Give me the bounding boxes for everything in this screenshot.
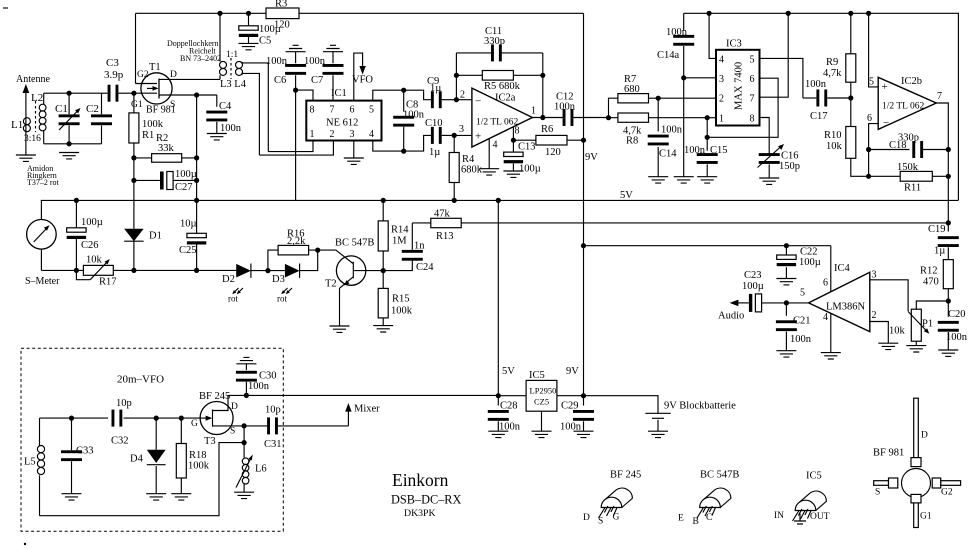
capacitor C13 100u (electrolytic): [504, 140, 541, 174]
svg-text:33k: 33k: [158, 143, 175, 154]
svg-text:R11: R11: [904, 183, 921, 194]
node C26 bottom: [74, 268, 79, 273]
svg-text:R14: R14: [391, 225, 409, 236]
node C18 left: [866, 147, 871, 152]
svg-text:BF 245: BF 245: [199, 391, 230, 402]
svg-text:BN 73–2402: BN 73–2402: [180, 54, 221, 63]
svg-text:100n: 100n: [790, 334, 812, 345]
node C17/R9/R10: [848, 95, 853, 100]
5V top rail: [684, 13, 959, 200]
capacitor C25 10u (electrolytic): [179, 200, 206, 270]
svg-text:LP2950: LP2950: [530, 386, 557, 396]
svg-text:100n: 100n: [805, 79, 827, 90]
svg-text:T2: T2: [325, 279, 337, 290]
svg-text:Antenne: Antenne: [16, 74, 50, 85]
ground C15: [697, 177, 717, 183]
svg-text:100k: 100k: [391, 306, 413, 317]
svg-text:C15: C15: [710, 145, 728, 156]
svg-text:C14: C14: [659, 149, 677, 160]
svg-text:6: 6: [750, 74, 755, 85]
svg-text:6: 6: [867, 113, 872, 124]
wire VFO return (L5 bottom loop): [40, 443, 245, 516]
svg-text:BF 245: BF 245: [610, 470, 641, 481]
node R11 left: [866, 174, 871, 179]
ground C28: [488, 431, 508, 437]
svg-text:1: 1: [719, 114, 724, 125]
svg-text:C20: C20: [948, 309, 966, 320]
resistor R10 10k: [824, 98, 869, 176]
ground C14a: [674, 177, 694, 183]
svg-text:330p: 330p: [898, 133, 919, 144]
wire feedback right riser: [542, 53, 544, 118]
svg-text:R5 680k: R5 680k: [484, 81, 521, 92]
svg-text:C6: C6: [274, 75, 286, 86]
svg-text:LM386N: LM386N: [826, 302, 866, 313]
svg-text:7: 7: [330, 105, 335, 116]
node R5 left: [454, 73, 459, 78]
node 5V riser on rail: [496, 198, 501, 203]
svg-text:9V: 9V: [566, 366, 579, 377]
node 9V/supply line: [581, 243, 586, 248]
node R8/pin1: [705, 115, 710, 120]
wire C6 node down to 5V rail: [295, 90, 297, 200]
wire G2 to 9V rail: [135, 13, 137, 83]
capacitor C28 100n: [488, 396, 521, 433]
svg-text:10p: 10p: [265, 405, 281, 416]
svg-text:5: 5: [800, 288, 805, 299]
svg-text:S: S: [230, 427, 235, 437]
node C6 / pin8: [293, 88, 298, 93]
svg-text:680: 680: [624, 84, 640, 95]
svg-text:3: 3: [459, 124, 464, 135]
capacitor C32 10p: [111, 398, 132, 447]
svg-text:Mixer: Mixer: [354, 404, 380, 415]
svg-text:P1: P1: [922, 319, 933, 330]
wire IC5 to 9V node: [557, 396, 658, 414]
svg-text:IC1: IC1: [331, 88, 347, 99]
svg-text:BF 981: BF 981: [873, 448, 904, 459]
capacitor C18 330p: [869, 133, 949, 159]
inductor L5: [24, 418, 45, 516]
op-amp IC2b 1/2 TL062: [867, 76, 942, 129]
svg-text:100n: 100n: [946, 332, 968, 343]
svg-text:100µ: 100µ: [742, 281, 764, 292]
S-Meter: [25, 200, 60, 287]
svg-text:Einkorn: Einkorn: [392, 470, 449, 490]
wire pin8 IC3 to C16: [760, 118, 770, 154]
capacitor C11 330p: [456, 26, 542, 61]
svg-text:L2: L2: [31, 92, 43, 104]
svg-text:2: 2: [872, 310, 877, 321]
wire pin3: [454, 134, 472, 136]
resistor R17 10k (variable): [76, 255, 116, 288]
svg-text:OUT: OUT: [810, 512, 830, 522]
wire drain node: [228, 394, 246, 396]
node C14a/pin3: [681, 75, 686, 80]
ground C20: [938, 350, 958, 356]
node C33: [69, 416, 74, 421]
svg-text:100n: 100n: [304, 56, 326, 67]
ground IC2a pin4: [479, 169, 499, 175]
svg-text:R18: R18: [189, 450, 207, 461]
svg-text:D: D: [170, 70, 177, 80]
ground IC4 pin2: [878, 343, 898, 349]
svg-text:C14a: C14a: [657, 50, 680, 61]
node C25 bottom: [194, 268, 199, 273]
svg-text:IC2a: IC2a: [495, 93, 516, 104]
svg-text:G: G: [613, 513, 620, 523]
node output/feedback: [540, 115, 545, 120]
wire feedback left riser: [455, 53, 457, 100]
svg-text:100n: 100n: [248, 381, 270, 392]
node R14 rail: [381, 198, 386, 203]
resistor R1 100k: [129, 93, 164, 158]
node C8 bottom: [401, 149, 406, 154]
svg-text:C: C: [706, 513, 712, 523]
svg-text:D1: D1: [149, 231, 162, 242]
svg-text:100k: 100k: [142, 119, 164, 130]
capacitor C3 3.9p: [104, 57, 134, 102]
capacitor C22 100u (electrolytic): [777, 246, 821, 279]
svg-text:3.9p: 3.9p: [104, 69, 124, 81]
ground L6: [234, 492, 254, 498]
svg-text:1: 1: [310, 129, 315, 140]
ground C30 (inverted): [236, 357, 256, 363]
svg-text:NE 612: NE 612: [326, 118, 358, 129]
wire 5V line to IC5: [498, 395, 526, 397]
text Amidon Ringkern T37-2 rot: [27, 164, 60, 187]
svg-text:R6: R6: [541, 124, 553, 135]
svg-text:−: −: [475, 96, 481, 108]
varicap diode D4: [130, 418, 166, 494]
svg-text:5: 5: [369, 105, 374, 116]
ground T2 emitter: [330, 326, 350, 332]
svg-text:2: 2: [330, 129, 335, 140]
audio amp IC4 LM386N: [800, 263, 877, 332]
ground C5: [239, 43, 259, 49]
resistor R11 150k: [869, 162, 949, 194]
capacitor C7 100n: [304, 52, 344, 101]
svg-text:D: D: [921, 431, 928, 441]
svg-text:1:1: 1:1: [226, 50, 238, 60]
node R5 right: [540, 73, 545, 78]
ground C6 (inverted): [286, 45, 306, 51]
svg-text:C13: C13: [518, 142, 536, 153]
capacitor C2: [86, 93, 112, 144]
node C27 left: [131, 178, 136, 183]
capacitor C15 100n: [684, 118, 728, 177]
ground C33: [62, 494, 82, 500]
resistor R13 47k: [412, 209, 461, 243]
svg-text:10p: 10p: [116, 398, 132, 409]
node R9 top on rail: [848, 11, 853, 16]
svg-text:C22: C22: [800, 247, 818, 258]
capacitor C23 100u (electrolytic horizontal): [742, 270, 786, 312]
wire R13 to IC2b output (AGC line): [461, 222, 948, 224]
inductor L1: [11, 118, 41, 144]
node output/C18: [946, 147, 951, 152]
capacitor C6 100n: [266, 52, 306, 90]
transformer core (dashed): [35, 101, 37, 132]
svg-text:100n: 100n: [661, 125, 683, 136]
svg-text:1: 1: [531, 106, 536, 117]
node R6 / 9V line: [581, 138, 586, 143]
ground IC5: [532, 431, 552, 437]
pictogram BF245 package: [583, 470, 641, 527]
svg-text:100n: 100n: [554, 102, 576, 113]
svg-text:3: 3: [350, 129, 355, 140]
svg-text:C2: C2: [86, 103, 99, 115]
svg-text:100n: 100n: [666, 27, 688, 38]
capacitor C20 100n: [938, 301, 968, 350]
battery 9V Blockbatterie: [645, 401, 736, 432]
svg-text:3: 3: [872, 270, 877, 281]
wire pin4 IC3 from rail: [709, 13, 716, 58]
svg-text:C5: C5: [259, 36, 271, 47]
svg-text:CZ5: CZ5: [534, 397, 549, 407]
svg-text:T3: T3: [204, 436, 216, 447]
node R16 right: [315, 248, 320, 253]
capacitor C16 150p (variable): [758, 144, 801, 178]
wire tank top: [44, 92, 102, 94]
svg-text:100µ: 100µ: [259, 24, 281, 35]
svg-text:D4: D4: [130, 454, 144, 465]
svg-text:G2: G2: [941, 488, 953, 498]
ground C13: [503, 171, 523, 177]
svg-text:8: 8: [310, 105, 315, 116]
wire pin5 IC3 to C17 line: [760, 58, 803, 98]
svg-text:C28: C28: [500, 401, 518, 412]
svg-text:BC 547B: BC 547B: [335, 238, 374, 249]
svg-text:R12: R12: [920, 266, 938, 277]
ground R15: [373, 326, 393, 332]
9V rail top: [136, 12, 584, 14]
svg-text:8: 8: [515, 126, 520, 137]
wire pin5 to C8 top: [373, 90, 432, 100]
wire pin1: [707, 117, 716, 119]
svg-text:C19: C19: [928, 224, 946, 235]
transformer T L3/L4 BN73-2402: [167, 39, 247, 90]
node T2 collector: [381, 268, 386, 273]
wire D1 to detector line: [133, 241, 135, 270]
capacitor C31 10p: [244, 405, 348, 451]
wire IC2b pin5 bias from rail: [869, 13, 879, 87]
svg-text:7: 7: [750, 94, 755, 105]
svg-text:4: 4: [823, 312, 828, 323]
capacitor C27 100u (electrolytic): [134, 169, 197, 193]
resistor R15 100k: [378, 271, 413, 326]
svg-text:C24: C24: [416, 262, 434, 273]
wire C2 node to C3: [102, 92, 108, 94]
svg-text:100k: 100k: [188, 461, 210, 472]
svg-text:IC2b: IC2b: [901, 76, 922, 87]
svg-text:330p: 330p: [484, 36, 505, 47]
svg-text:4: 4: [719, 55, 724, 66]
svg-text:G2: G2: [137, 70, 149, 80]
node pin7 on rail: [786, 11, 791, 16]
node C1 top: [67, 91, 72, 96]
inductor L4: [236, 61, 269, 155]
node output/R11: [946, 174, 951, 179]
ground R18: [171, 494, 191, 500]
node pin8/R6/C13: [511, 138, 516, 143]
svg-text:6: 6: [350, 105, 355, 116]
wire IC2a pin8: [512, 127, 514, 140]
svg-text:C1: C1: [55, 103, 68, 115]
wire tank bottom: [44, 143, 102, 145]
wire pin1: [268, 141, 313, 152]
wire IC2b output: [936, 103, 948, 223]
ground D4: [146, 494, 166, 500]
svg-text:1µ: 1µ: [429, 147, 440, 158]
resistor R9 4,7k: [823, 13, 856, 98]
svg-text:R13: R13: [436, 231, 454, 242]
node R2 left: [131, 155, 136, 160]
svg-text:5: 5: [869, 77, 874, 88]
svg-text:2,2k: 2,2k: [287, 236, 306, 247]
svg-text:S: S: [875, 488, 880, 498]
ground C21: [776, 351, 796, 357]
node G1/C3/R1: [131, 91, 136, 96]
node 5V/C28: [496, 393, 501, 398]
svg-text:2: 2: [719, 94, 724, 105]
svg-text:DSB–DC–RX: DSB–DC–RX: [391, 493, 462, 507]
svg-text:3:16: 3:16: [24, 134, 41, 144]
5V feed line to VFO: [246, 394, 498, 396]
wire pin7 IC3 to 5V rail: [760, 13, 789, 97]
svg-text:D: D: [231, 402, 238, 412]
svg-text:3: 3: [719, 74, 724, 85]
VFO gate line: [40, 417, 201, 419]
svg-text:C30: C30: [259, 371, 277, 382]
voltage regulator IC5 LP2950: [526, 370, 557, 431]
svg-text:5: 5: [750, 55, 755, 66]
svg-text:150p: 150p: [779, 161, 800, 172]
capacitor C1 (variable): [55, 93, 81, 144]
svg-text:S–Meter: S–Meter: [25, 276, 60, 287]
node R12/C20/P1: [946, 298, 951, 303]
resistor R2 33k: [134, 133, 197, 162]
capacitor C33: [61, 418, 94, 494]
svg-text:120: 120: [545, 147, 561, 158]
svg-text:B: B: [693, 517, 699, 527]
antenna input: [16, 74, 50, 155]
audio output arrow: [718, 300, 749, 322]
inductor L3: [220, 13, 227, 79]
transistor T1 BF981 dual-gate MOSFET: [131, 62, 220, 116]
svg-text:VFO: VFO: [352, 75, 373, 86]
wire C9 to pin2: [456, 99, 472, 101]
svg-text:47k: 47k: [434, 209, 451, 220]
svg-text:20m–VFO: 20m–VFO: [117, 374, 164, 386]
svg-text:MAX 7400: MAX 7400: [734, 62, 745, 110]
svg-text:100n: 100n: [684, 145, 706, 156]
ground C22: [776, 279, 796, 285]
wire R1 node down to D1: [133, 158, 135, 229]
node L3 top: [217, 11, 222, 16]
node pin4 riser on rail: [707, 11, 712, 16]
svg-text:7: 7: [937, 91, 942, 102]
capacitor C12 100n: [554, 92, 609, 127]
svg-text:IC4: IC4: [834, 263, 851, 274]
potentiometer P1 10k: [889, 301, 948, 346]
svg-text:5V: 5V: [620, 190, 633, 201]
svg-text:9V Blockbatterie: 9V Blockbatterie: [664, 401, 736, 412]
5V riser from regulator: [497, 200, 499, 395]
capacitor C30 100n: [236, 364, 277, 396]
svg-text:100n: 100n: [220, 123, 242, 134]
svg-text:R17: R17: [99, 277, 117, 288]
node IC2a pin2: [454, 97, 459, 102]
node R4 bottom on 5V rail: [452, 198, 457, 203]
wire R16 node to T2 base: [318, 250, 353, 263]
svg-text:470: 470: [923, 277, 939, 288]
svg-text:BF 981: BF 981: [146, 105, 176, 116]
svg-text:C26: C26: [81, 240, 99, 251]
svg-text:R8: R8: [626, 136, 638, 147]
mixer output arrow: [345, 403, 380, 426]
capacitor C10 1u: [425, 118, 454, 158]
wire pin3 to ground: [353, 141, 355, 159]
svg-text:C21: C21: [793, 316, 811, 327]
VFO enclosure (dashed box): [21, 348, 283, 531]
wire IC4 output pin5: [786, 302, 808, 304]
node source/R2: [194, 155, 199, 160]
pictogram BF981 package: [873, 398, 961, 527]
ground C7 (inverted): [323, 45, 343, 51]
svg-text:1µ: 1µ: [430, 83, 441, 94]
svg-text:IC5: IC5: [806, 471, 822, 482]
ground tank: [59, 153, 79, 159]
node D2/D3: [265, 268, 270, 273]
node pin5 riser on rail: [866, 11, 871, 16]
ground P1: [906, 346, 926, 352]
svg-text:100n: 100n: [403, 110, 425, 121]
node L6 top: [242, 440, 247, 445]
wire D3 to R16 node: [300, 250, 318, 271]
VFO input arrow: [352, 53, 373, 101]
svg-text:C10: C10: [425, 118, 443, 129]
svg-text:T37–2 rot: T37–2 rot: [27, 178, 60, 187]
capacitor C21 100n: [776, 303, 812, 351]
ground IC1 pin3: [344, 158, 364, 164]
svg-text:C16: C16: [781, 151, 799, 162]
node D1 bottom: [131, 268, 136, 273]
svg-text:C4: C4: [219, 101, 232, 112]
capacitor C24 1n: [383, 223, 434, 273]
ground battery: [648, 431, 668, 437]
svg-text:10k: 10k: [889, 326, 906, 337]
resistor R14 1M: [378, 200, 409, 270]
svg-text:100µ: 100µ: [175, 169, 197, 180]
svg-text:1/2 TL 062: 1/2 TL 062: [476, 118, 518, 128]
transistor T3 BF245 JFET: [191, 391, 244, 447]
svg-text:9V: 9V: [585, 152, 598, 163]
resistor R6 120: [513, 124, 583, 158]
svg-text:6: 6: [823, 278, 828, 289]
svg-text:100µ: 100µ: [81, 217, 103, 228]
transistor T2 BC547B: [325, 238, 384, 327]
wire IC4 pin3 to P1 wiper: [870, 280, 908, 311]
wire pin3 IC3: [684, 77, 716, 79]
ground C16: [759, 178, 779, 184]
svg-text:R15: R15: [392, 294, 410, 305]
inductor L6 (variable): [236, 443, 267, 493]
wire IC2a pin4 to ground: [488, 139, 490, 169]
capacitor C26 100u (electrolytic): [67, 200, 103, 270]
svg-text:C25: C25: [179, 245, 197, 256]
svg-text:D: D: [583, 513, 590, 523]
